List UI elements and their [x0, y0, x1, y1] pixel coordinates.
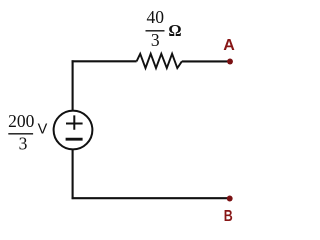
svg-text:40: 40: [146, 7, 164, 27]
voltage source V1: [54, 111, 93, 150]
svg-text:Ω: Ω: [168, 21, 181, 40]
wire bottom horizontal (corner to node B): [72, 197, 230, 199]
svg-text:200: 200: [8, 111, 35, 131]
svg-text:B: B: [224, 208, 233, 225]
wire top horizontal right (resistor to node A): [182, 60, 229, 62]
wire top-left vertical (corner to source top): [72, 60, 74, 111]
svg-text:V: V: [38, 122, 48, 138]
svg-text:3: 3: [19, 133, 28, 153]
node B: [224, 196, 233, 225]
wire top horizontal left (corner to resistor): [72, 60, 137, 62]
svg-text:A: A: [223, 37, 235, 54]
value label 40/3 Ω: [146, 7, 182, 50]
node A: [223, 37, 235, 64]
svg-text:3: 3: [151, 30, 160, 50]
value label 200/3 V: [8, 111, 47, 153]
wire bottom-left vertical (source bottom to corner): [72, 149, 74, 199]
resistor R1: [137, 54, 182, 68]
